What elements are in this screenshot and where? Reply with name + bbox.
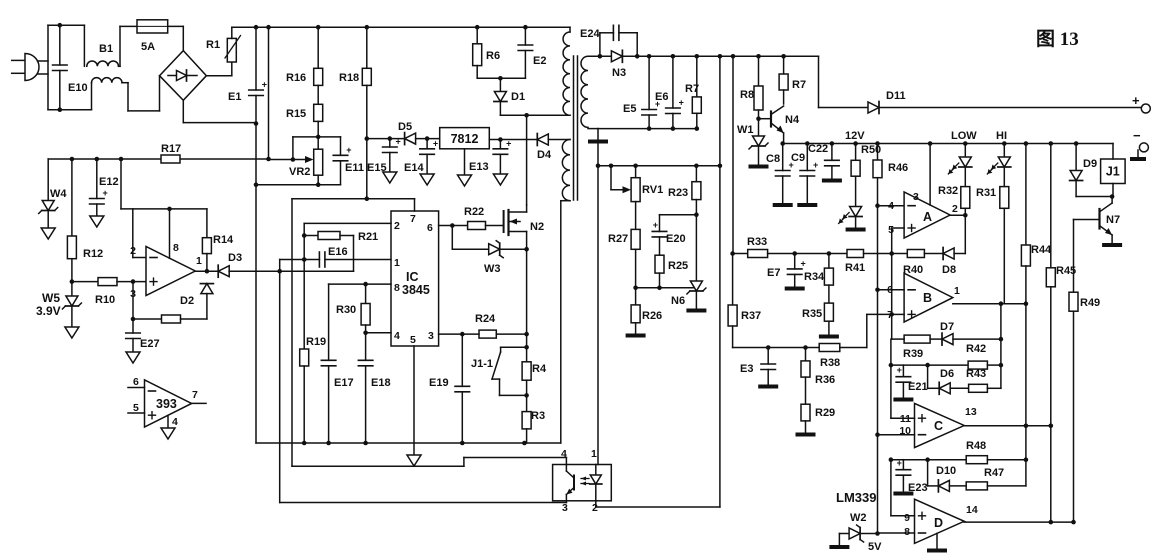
bridge rectifier [160, 26, 207, 100]
capacitor E19 [429, 334, 470, 443]
svg-text:E1: E1 [228, 91, 241, 103]
svg-text:R18: R18 [339, 72, 359, 84]
svg-text:2: 2 [952, 203, 958, 215]
svg-text:4: 4 [394, 330, 400, 342]
wire [183, 100, 256, 122]
svg-text:+: + [262, 80, 267, 90]
diode D8 [942, 248, 965, 277]
diode D6 [928, 365, 969, 394]
svg-text:D10: D10 [936, 465, 956, 477]
resistor R47 [966, 467, 1026, 490]
label 图13 [1036, 28, 1079, 50]
svg-text:R36: R36 [815, 374, 835, 386]
svg-text:R26: R26 [642, 310, 662, 322]
wire pin2 [302, 223, 391, 261]
comparator A [878, 144, 959, 239]
svg-text:图 13: 图 13 [1036, 28, 1079, 50]
capacitor E3 [740, 348, 775, 386]
wire N2 drain riser [526, 115, 528, 205]
AC plug P1 [12, 54, 48, 81]
wire [122, 76, 160, 111]
wire R33 riser [732, 56, 734, 253]
wire pin3 line [280, 501, 567, 503]
zener N6 [671, 281, 706, 309]
svg-text:RV1: RV1 [642, 184, 663, 196]
svg-text:+: + [346, 145, 351, 155]
capacitor E27 [126, 319, 160, 352]
diode D3 [218, 252, 280, 277]
zener W1 [737, 119, 768, 165]
ground [846, 228, 866, 232]
LED HI [987, 130, 1011, 187]
svg-text:VR2: VR2 [289, 166, 310, 178]
wire pin2 riser [133, 209, 146, 258]
transformer T1 core [574, 56, 578, 200]
svg-text:C22: C22 [808, 143, 828, 155]
svg-text:R37: R37 [741, 310, 761, 322]
resistor R17 [161, 143, 181, 163]
svg-text:R25: R25 [668, 260, 688, 272]
ground [927, 549, 947, 553]
capacitor E1 [228, 27, 267, 185]
svg-text:1: 1 [196, 255, 202, 267]
resistor R43 [966, 368, 1001, 392]
regulator 7812 U3 [440, 128, 490, 175]
svg-text:7812: 7812 [451, 132, 479, 146]
resistor R12 [67, 159, 103, 282]
svg-text:R12: R12 [83, 248, 103, 260]
svg-text:R49: R49 [1080, 297, 1100, 309]
svg-text:D2: D2 [180, 295, 194, 307]
resistor R48 [966, 440, 1028, 464]
wire sample top [596, 164, 723, 169]
inductor B1 bottom winding [92, 78, 123, 83]
resistor R10 [72, 278, 146, 306]
resistor R6 [473, 27, 500, 78]
optocoupler LED [581, 465, 602, 501]
resistor R29 [801, 377, 835, 433]
wire [48, 83, 92, 110]
resistor feedback [131, 282, 207, 323]
resistor R14 [202, 209, 234, 271]
thermistor R1 [206, 27, 241, 75]
terminal plus [1132, 93, 1150, 113]
resistor R27 [608, 202, 640, 288]
resistor R24 [462, 313, 526, 338]
resistor R39 [892, 335, 942, 360]
wire secondary output line [647, 54, 819, 59]
svg-text:R42: R42 [966, 343, 986, 355]
transistor N7 [1074, 197, 1121, 244]
svg-text:13: 13 [965, 406, 977, 418]
wire E3 line [733, 345, 820, 350]
svg-text:W2: W2 [850, 512, 867, 524]
svg-text:R6: R6 [486, 50, 500, 62]
comparator D [904, 499, 978, 549]
svg-text:E11: E11 [345, 162, 364, 174]
transformer primary winding [527, 27, 570, 115]
ground [126, 352, 140, 363]
svg-text:+: + [653, 220, 658, 230]
svg-text:N4: N4 [785, 114, 800, 126]
capacitor E24 [580, 25, 637, 58]
svg-text:R27: R27 [608, 233, 628, 245]
potentiometer VR2 [269, 135, 341, 178]
svg-text:R44: R44 [1031, 244, 1052, 256]
svg-text:+: + [897, 365, 902, 375]
svg-text:+: + [813, 160, 818, 170]
wire C minus [878, 434, 915, 436]
svg-text:+: + [897, 458, 902, 468]
resistor R31 [976, 187, 1009, 304]
svg-text:14: 14 [966, 504, 978, 516]
terminal minus [1130, 128, 1148, 161]
resistor R23 [668, 166, 701, 281]
svg-text:D4: D4 [537, 149, 552, 161]
svg-text:+: + [433, 138, 438, 148]
svg-text:3: 3 [562, 502, 568, 514]
capacitor E20 [652, 215, 696, 256]
capacitor C9 [791, 144, 818, 204]
wire B output [953, 301, 1028, 388]
svg-text:R46: R46 [888, 162, 908, 174]
wire output node [195, 269, 218, 274]
IC U4 3845 box [391, 211, 439, 346]
fuse 5A [120, 20, 183, 53]
svg-text:D5: D5 [398, 121, 412, 133]
svg-text:N7: N7 [1106, 214, 1120, 226]
resistor R37 [728, 254, 761, 348]
svg-text:E21: E21 [908, 381, 928, 393]
wire B minus [878, 289, 905, 291]
ground [161, 428, 175, 439]
resistor R44 [1021, 144, 1052, 426]
svg-text:8: 8 [394, 282, 400, 294]
svg-text:LM339: LM339 [836, 490, 876, 505]
svg-text:E10: E10 [68, 82, 88, 94]
svg-text:J1-1: J1-1 [471, 358, 493, 370]
svg-text:4: 4 [172, 416, 178, 428]
svg-text:4: 4 [888, 200, 894, 212]
ground [458, 175, 472, 186]
wire top DC rail [232, 25, 570, 30]
svg-text:HI: HI [996, 130, 1007, 142]
wire aux return [560, 201, 562, 443]
ground [65, 327, 79, 338]
svg-text:E6: E6 [655, 91, 668, 103]
wire C output [964, 424, 1053, 429]
svg-text:6: 6 [133, 376, 139, 388]
resistor R30 [336, 284, 370, 333]
svg-text:+: + [103, 188, 108, 198]
svg-text:R4: R4 [532, 363, 547, 375]
svg-text:E27: E27 [140, 338, 160, 350]
resistor R42 [966, 343, 1003, 369]
ground [749, 165, 769, 169]
svg-text:5A: 5A [141, 41, 155, 53]
svg-text:N3: N3 [612, 67, 626, 79]
wire A plus input [889, 228, 904, 256]
svg-text:D8: D8 [942, 264, 956, 276]
resistor R26 [631, 288, 662, 334]
svg-text:R10: R10 [95, 294, 115, 306]
svg-text:E5: E5 [623, 103, 636, 115]
wire [268, 27, 270, 159]
wire [633, 286, 696, 291]
ground [893, 398, 913, 402]
capacitor E13 [469, 137, 537, 174]
capacitor E7 [767, 254, 806, 288]
wire [477, 76, 525, 81]
comparator C [899, 403, 977, 447]
svg-text:1: 1 [954, 285, 960, 297]
capacitor E12 [90, 159, 119, 216]
wire op-amp feedback rail [121, 159, 207, 211]
svg-text:+: + [506, 138, 511, 148]
wire [719, 56, 721, 507]
capacitor E5 [623, 56, 660, 128]
wire [119, 26, 121, 66]
svg-text:E12: E12 [99, 176, 119, 188]
svg-text:R22: R22 [464, 206, 484, 218]
svg-text:R31: R31 [976, 187, 996, 199]
wire pin3 [439, 332, 465, 337]
ground [407, 455, 421, 466]
comparator B [887, 273, 960, 322]
op-amp U1A [130, 209, 202, 300]
wire E1 down to bottom rail [255, 185, 257, 443]
svg-text:3: 3 [428, 330, 434, 342]
wire opto pin1 riser [597, 143, 599, 465]
zener W3 [452, 226, 529, 276]
ground [797, 203, 817, 207]
svg-text:E13: E13 [469, 161, 489, 173]
zener W2 [829, 490, 882, 553]
resistor R25 [655, 255, 688, 288]
ground [626, 334, 646, 338]
wire pin7 vcc [292, 199, 415, 467]
capacitor E18 [358, 333, 390, 446]
svg-text:R47: R47 [984, 467, 1004, 479]
transformer secondary winding [581, 56, 611, 140]
wire D minus [878, 532, 915, 534]
svg-text:A: A [923, 210, 932, 224]
LED power [839, 207, 863, 229]
svg-text:R34: R34 [804, 271, 825, 283]
svg-text:R15: R15 [286, 108, 306, 120]
svg-text:5: 5 [133, 402, 139, 414]
potentiometer RV1 [611, 166, 663, 202]
wire plus line [880, 107, 1142, 109]
capacitor E6 [655, 56, 684, 128]
svg-text:R24: R24 [475, 313, 496, 325]
svg-text:7: 7 [410, 213, 416, 225]
svg-text:W5: W5 [42, 291, 60, 305]
wire C out feedback drop [1025, 426, 1027, 486]
resistor R33 [747, 236, 768, 258]
svg-text:+: + [800, 258, 805, 268]
ground [493, 174, 507, 185]
resistor R22 [464, 206, 504, 230]
svg-text:E3: E3 [740, 363, 753, 375]
diode D4 [537, 134, 552, 162]
svg-text:B1: B1 [99, 43, 113, 55]
svg-text:R32: R32 [938, 185, 958, 197]
ground [420, 174, 434, 185]
ground [796, 433, 816, 437]
ground [41, 228, 55, 239]
wire pin2 line [596, 501, 720, 507]
wire bottom rail [256, 441, 561, 446]
resistor R41 [845, 250, 892, 275]
optocoupler U5 box [553, 448, 612, 514]
diode D10 [928, 460, 967, 492]
svg-text:C9: C9 [791, 152, 805, 164]
svg-text:R7: R7 [792, 79, 806, 91]
svg-text:11: 11 [900, 413, 911, 425]
resistor R50 [851, 144, 881, 207]
wire R38 jog [867, 314, 892, 347]
svg-text:J1: J1 [1106, 165, 1120, 179]
svg-text:R33: R33 [747, 236, 767, 248]
ground [893, 492, 913, 496]
svg-text:1: 1 [591, 448, 597, 460]
capacitor E21 [896, 365, 927, 398]
svg-text:R3: R3 [531, 410, 545, 422]
wire to D11 [819, 56, 869, 107]
resistor R46 [873, 144, 908, 206]
wire pin4 feedback line [292, 458, 566, 467]
wire B plus / pin7 net [889, 254, 904, 340]
svg-text:E18: E18 [371, 377, 391, 389]
ground [773, 203, 793, 207]
svg-text:R7: R7 [685, 83, 699, 95]
resistor R7 [685, 56, 701, 128]
wire vcc down [365, 136, 370, 201]
optocoupler phototransistor [566, 465, 574, 501]
diode D5 [390, 121, 416, 145]
svg-text:N2: N2 [530, 221, 544, 233]
svg-text:IC: IC [406, 270, 419, 284]
svg-text:5V: 5V [868, 541, 882, 553]
svg-text:C: C [934, 419, 943, 433]
capacitor E23 [896, 458, 927, 494]
wire E21 net [889, 339, 968, 418]
svg-text:2: 2 [592, 502, 598, 514]
wire 12V rail [780, 130, 1113, 146]
svg-text:R30: R30 [336, 304, 356, 316]
svg-text:R17: R17 [161, 143, 181, 155]
resistor R4 [522, 347, 547, 395]
capacitor E15 [367, 136, 401, 174]
svg-text:9: 9 [904, 512, 910, 524]
ground [822, 179, 842, 183]
diode D1 [494, 78, 525, 115]
resistor R36 [801, 348, 835, 387]
zener W5 3.9V [36, 279, 81, 327]
svg-text:R35: R35 [802, 308, 822, 320]
capacitor E16 [280, 246, 391, 267]
wire C plus [891, 417, 915, 419]
svg-text:5: 5 [410, 334, 416, 346]
resistor R18 [339, 27, 371, 138]
relay J1 [1101, 144, 1126, 199]
svg-text:E17: E17 [334, 377, 354, 389]
svg-text:+: + [1132, 93, 1140, 108]
wire [48, 25, 84, 66]
wire D output [964, 520, 1076, 525]
capacitor E14 [404, 136, 440, 174]
ground [785, 287, 805, 291]
svg-text:W1: W1 [737, 124, 754, 136]
svg-text:393: 393 [156, 397, 177, 411]
capacitor E17 [321, 360, 353, 445]
svg-text:E24: E24 [580, 28, 600, 40]
wire pin5 ground [413, 346, 415, 455]
switch J1-1 [471, 334, 529, 398]
wire VR2 bottom line [254, 175, 341, 187]
svg-text:D7: D7 [940, 321, 954, 333]
svg-text:E19: E19 [429, 377, 449, 389]
ground [686, 309, 706, 313]
svg-text:8: 8 [173, 242, 179, 254]
svg-text:7: 7 [192, 389, 198, 401]
svg-text:2: 2 [394, 220, 400, 232]
svg-text:4: 4 [561, 448, 567, 460]
svg-text:E16: E16 [328, 246, 348, 258]
svg-text:R48: R48 [966, 440, 986, 452]
svg-text:E7: E7 [767, 267, 780, 279]
resistor R3 [522, 395, 545, 443]
LED LOW [948, 130, 977, 187]
svg-text:B: B [923, 291, 932, 305]
svg-text:E14: E14 [404, 162, 424, 174]
svg-text:12V: 12V [845, 130, 865, 142]
capacitor C8 [766, 144, 794, 204]
resistor R38 [819, 344, 867, 370]
svg-text:R43: R43 [966, 368, 986, 380]
svg-text:C8: C8 [766, 153, 780, 165]
diode D2 [180, 284, 213, 319]
transformer aux winding [548, 140, 570, 201]
ground [383, 172, 397, 183]
svg-text:R1: R1 [206, 39, 220, 51]
svg-text:W4: W4 [50, 188, 67, 200]
wire R40 line [892, 253, 908, 255]
ground [819, 335, 839, 339]
svg-text:1: 1 [394, 257, 400, 269]
wire pin6 [439, 223, 468, 228]
diode D9 [1070, 144, 1113, 197]
wire A output [950, 213, 968, 254]
capacitor E11 [333, 137, 364, 185]
inductor B1 top winding [87, 43, 119, 66]
svg-text:−: − [1133, 128, 1141, 143]
svg-text:6: 6 [427, 222, 433, 234]
svg-text:R14: R14 [213, 234, 234, 246]
svg-text:R16: R16 [286, 72, 306, 84]
svg-text:3.9V: 3.9V [36, 304, 61, 318]
svg-text:R8: R8 [740, 89, 754, 101]
resistor R21 [304, 231, 378, 271]
wire E23 net [889, 457, 967, 515]
resistor R40 [903, 250, 943, 277]
svg-text:8: 8 [904, 526, 910, 538]
wire [768, 251, 847, 256]
svg-text:D6: D6 [940, 368, 954, 380]
ground [758, 385, 778, 389]
op-amp U2 393 [128, 376, 206, 428]
